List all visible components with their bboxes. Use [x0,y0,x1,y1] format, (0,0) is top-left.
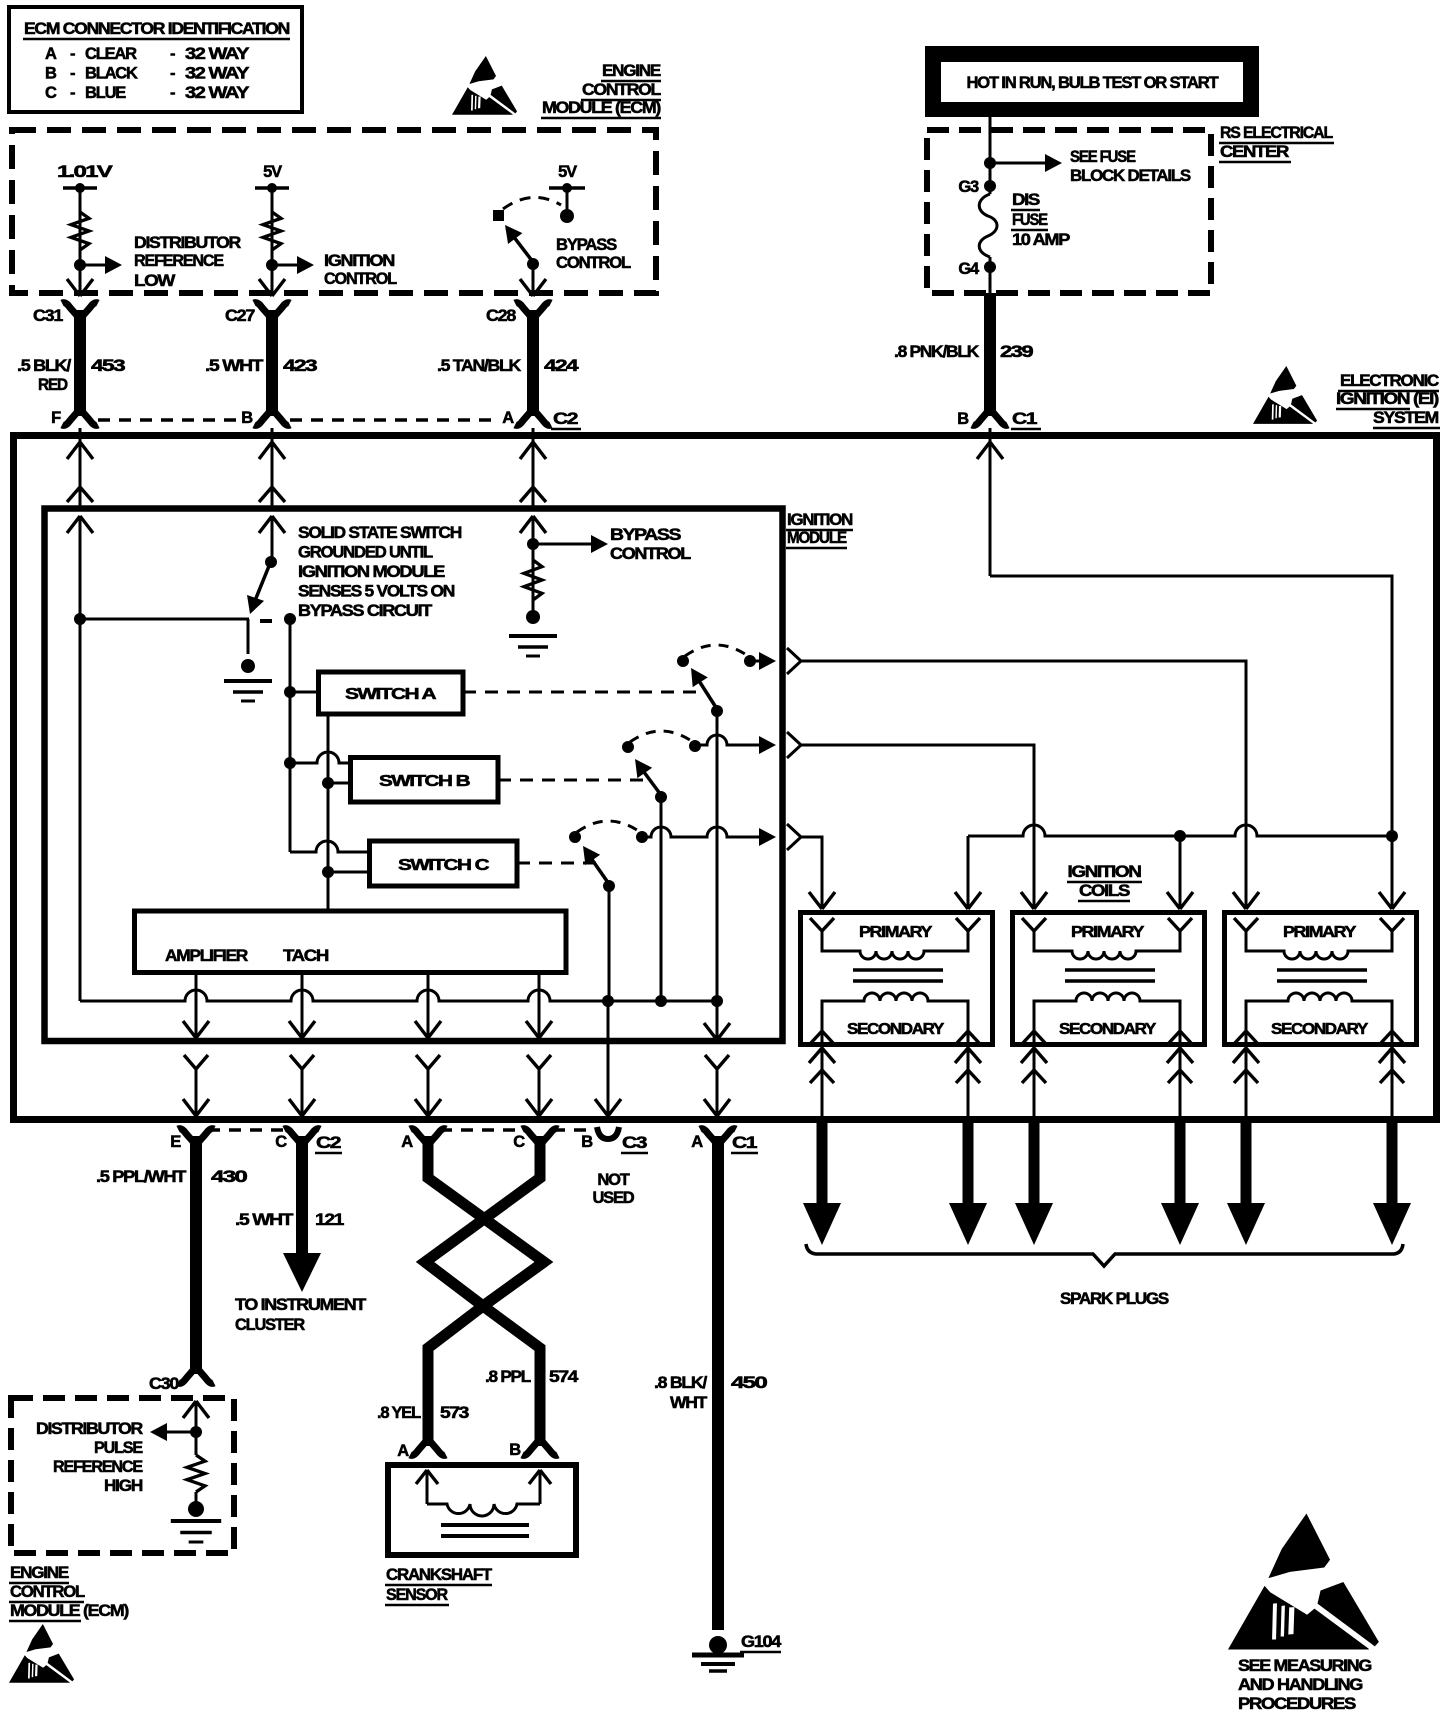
svg-text:IGNITION: IGNITION [324,252,394,270]
svg-text:32 WAY: 32 WAY [185,84,249,102]
svg-text:32 WAY: 32 WAY [185,45,249,63]
svg-text:B: B [241,409,253,427]
svg-text:BLOCK DETAILS: BLOCK DETAILS [1070,167,1191,185]
svg-text:574: 574 [549,1368,579,1386]
svg-text:573: 573 [440,1404,469,1422]
svg-text:RED: RED [38,376,68,394]
svg-text:C27: C27 [225,307,255,325]
svg-text:PULSE: PULSE [94,1439,143,1457]
svg-text:TACH: TACH [283,947,328,965]
svg-text:.5 TAN/BLK: .5 TAN/BLK [437,357,521,375]
svg-text:CONTROL: CONTROL [582,81,661,99]
svg-text:450: 450 [731,1374,767,1392]
svg-text:.8 BLK/: .8 BLK/ [654,1374,708,1392]
svg-text:SWITCH A: SWITCH A [345,686,437,703]
svg-text:CONTROL: CONTROL [610,545,691,563]
svg-text:PRIMARY: PRIMARY [1283,924,1357,941]
svg-text:C30: C30 [149,1375,179,1393]
svg-text:SENSOR: SENSOR [386,1586,448,1604]
svg-text:430: 430 [211,1168,247,1186]
svg-text:SEE MEASURING: SEE MEASURING [1238,1657,1371,1675]
svg-text:ENGINE: ENGINE [602,62,661,80]
svg-text:-: - [70,84,75,102]
svg-text:SWITCH B: SWITCH B [379,773,470,790]
svg-text:IGNITION (EI): IGNITION (EI) [1336,390,1439,408]
svg-text:B: B [957,410,969,428]
svg-text:C2: C2 [316,1134,341,1152]
svg-text:32 WAY: 32 WAY [185,65,249,83]
svg-text:239: 239 [1000,343,1033,361]
svg-text:-: - [70,65,75,83]
svg-text:SYSTEM: SYSTEM [1373,409,1438,427]
svg-text:NOT: NOT [597,1171,629,1189]
svg-text:C: C [45,84,57,102]
svg-text:AMPLIFIER: AMPLIFIER [165,947,248,965]
svg-text:PRIMARY: PRIMARY [1071,924,1145,941]
svg-text:CRANKSHAFT: CRANKSHAFT [386,1566,492,1584]
svg-text:SPARK PLUGS: SPARK PLUGS [1060,1290,1169,1308]
svg-text:G104: G104 [741,1633,782,1651]
svg-text:CONTROL: CONTROL [556,254,631,272]
svg-text:.5 BLK/: .5 BLK/ [17,357,72,375]
svg-text:A: A [502,409,514,427]
svg-text:.5 PPL/WHT: .5 PPL/WHT [96,1168,186,1186]
svg-text:MODULE: MODULE [787,529,847,547]
svg-text:A: A [691,1133,703,1151]
svg-text:.5 WHT: .5 WHT [235,1211,293,1229]
svg-text:WHT: WHT [670,1394,707,1412]
svg-text:5V: 5V [263,163,282,181]
svg-text:423: 423 [283,357,317,375]
svg-text:-: - [70,45,75,63]
svg-text:CONTROL: CONTROL [324,270,397,288]
svg-text:SEE FUSE: SEE FUSE [1070,148,1136,166]
svg-text:G4: G4 [958,260,980,278]
svg-text:DIS: DIS [1012,191,1040,209]
svg-text:.8 PNK/BLK: .8 PNK/BLK [894,343,979,361]
svg-text:F: F [51,409,61,427]
svg-text:1.01V: 1.01V [57,163,113,181]
svg-text:C28: C28 [486,307,516,325]
svg-text:LOW: LOW [134,272,176,290]
svg-text:MODULE (ECM): MODULE (ECM) [10,1602,129,1620]
svg-text:SENSES 5 VOLTS ON: SENSES 5 VOLTS ON [298,583,454,601]
svg-text:CENTER: CENTER [1220,143,1289,161]
svg-text:HIGH: HIGH [104,1477,142,1495]
svg-text:10 AMP: 10 AMP [1012,231,1070,249]
svg-text:C3: C3 [622,1134,647,1152]
svg-text:HOT IN RUN, BULB TEST OR START: HOT IN RUN, BULB TEST OR START [967,74,1219,92]
svg-text:CONTROL: CONTROL [10,1583,85,1601]
svg-text:.8 YEL: .8 YEL [377,1404,421,1422]
svg-text:DISTRIBUTOR: DISTRIBUTOR [36,1420,143,1438]
svg-text:BYPASS: BYPASS [610,526,681,544]
svg-text:SECONDARY: SECONDARY [1271,1021,1369,1038]
svg-text:CLEAR: CLEAR [85,45,137,63]
svg-text:TO INSTRUMENT: TO INSTRUMENT [235,1296,366,1314]
svg-text:-: - [170,65,175,83]
svg-text:C1: C1 [1012,410,1037,428]
svg-text:IGNITION: IGNITION [1068,863,1141,881]
svg-text:-: - [170,84,175,102]
svg-text:121: 121 [315,1211,344,1229]
svg-text:C31: C31 [33,307,63,325]
svg-text:G3: G3 [958,178,979,196]
svg-text:IGNITION MODULE: IGNITION MODULE [298,563,445,581]
svg-text:SECONDARY: SECONDARY [1059,1021,1157,1038]
svg-text:B: B [45,65,57,83]
svg-text:BLUE: BLUE [85,84,126,102]
svg-text:MODULE (ECM): MODULE (ECM) [542,99,661,117]
svg-text:COILS: COILS [1079,882,1130,900]
svg-text:CLUSTER: CLUSTER [235,1316,305,1334]
svg-text:C2: C2 [553,410,578,428]
svg-text:SWITCH C: SWITCH C [398,857,490,874]
svg-text:USED: USED [592,1189,634,1207]
svg-text:BYPASS: BYPASS [556,236,617,254]
svg-text:C: C [513,1133,525,1151]
svg-text:A: A [397,1442,409,1460]
svg-text:5V: 5V [558,163,577,181]
svg-text:BYPASS CIRCUIT: BYPASS CIRCUIT [298,602,432,620]
svg-text:FUSE: FUSE [1012,211,1048,229]
svg-text:ENGINE: ENGINE [10,1564,69,1582]
svg-text:SOLID STATE SWITCH: SOLID STATE SWITCH [298,524,461,542]
svg-text:E: E [170,1133,181,1151]
svg-text:.5 WHT: .5 WHT [205,357,263,375]
svg-text:REFERENCE: REFERENCE [53,1458,143,1476]
svg-text:AND HANDLING: AND HANDLING [1238,1676,1362,1694]
svg-text:-: - [170,45,175,63]
svg-text:PRIMARY: PRIMARY [859,924,933,941]
svg-text:SECONDARY: SECONDARY [847,1021,945,1038]
svg-text:GROUNDED UNTIL: GROUNDED UNTIL [298,544,433,562]
svg-text:PROCEDURES: PROCEDURES [1238,1695,1356,1713]
svg-text:IGNITION: IGNITION [787,511,852,529]
svg-text:C: C [275,1133,287,1151]
svg-text:RS ELECTRICAL: RS ELECTRICAL [1220,124,1333,142]
svg-text:B: B [581,1133,593,1151]
svg-text:C1: C1 [732,1134,757,1152]
svg-text:ECM CONNECTOR IDENTIFICATION: ECM CONNECTOR IDENTIFICATION [24,20,289,38]
svg-text:B: B [509,1441,521,1459]
svg-text:453: 453 [91,357,125,375]
svg-text:A: A [401,1133,413,1151]
svg-text:REFERENCE: REFERENCE [134,252,224,270]
svg-text:DISTRIBUTOR: DISTRIBUTOR [134,234,241,252]
svg-text:A: A [45,45,57,63]
svg-text:BLACK: BLACK [85,65,138,83]
svg-text:.8 PPL: .8 PPL [485,1368,531,1386]
svg-text:ELECTRONIC: ELECTRONIC [1340,372,1439,390]
svg-text:424: 424 [544,357,580,375]
